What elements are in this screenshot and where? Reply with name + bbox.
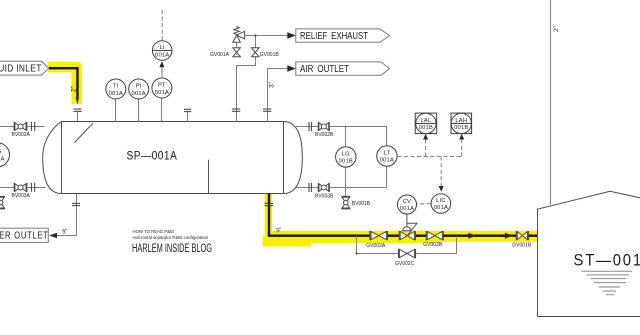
drain valve BV001B [341, 195, 350, 197]
flange pair liquid outlet [265, 202, 274, 204]
flange pair left bottom [31, 183, 33, 192]
svg-text:BV002A: BV002A [12, 132, 31, 138]
svg-text:GV001B: GV001B [512, 242, 532, 248]
tank ST-001A [538, 191, 640, 235]
signal to LAL [425, 138, 427, 157]
svg-text:001A: 001A [109, 91, 123, 97]
svg-text:BV003B: BV003B [315, 194, 334, 200]
wire: tank vent line [550, 0, 552, 205]
highlighted inlet line (yellow) [48, 67, 77, 104]
flange pair right top [308, 122, 310, 131]
svg-text:LI: LI [160, 45, 165, 51]
signal PT to LI [161, 66, 163, 78]
arrow into relief exhaust [287, 32, 296, 38]
wire: air outlet riser [268, 69, 288, 122]
flange pair right bottom [308, 183, 310, 192]
svg-text:AIR OUTLET: AIR OUTLET [300, 64, 349, 75]
svg-text:LG: LG [342, 151, 350, 157]
arrow into water outlet [49, 233, 57, 239]
spare nozzle flange [187, 112, 189, 122]
svg-text:Horizontal separator P&ID conf: Horizontal separator P&ID configuration [133, 235, 209, 240]
instrument PI 001A [138, 99, 140, 122]
instrument TI 001A [115, 99, 117, 122]
signal LIC to CV (dashed) [417, 203, 431, 205]
svg-text:BV002B: BV002B [315, 132, 334, 138]
gate valve GV002A [369, 231, 371, 240]
positioner CV 001A [398, 195, 417, 214]
svg-text:CV: CV [403, 199, 411, 205]
svg-text:HARLEM INSIDE BLOG: HARLEM INSIDE BLOG [132, 243, 212, 255]
flange pair left top [31, 122, 33, 131]
wire: left gauge top line [0, 126, 45, 128]
svg-text:001A: 001A [380, 158, 394, 164]
svg-text:RELIEF EXHAUST: RELIEF EXHAUST [300, 31, 368, 42]
wire: relief outlet [245, 35, 288, 37]
wire: thick segments between valves [388, 234, 400, 236]
control valve actuator stem [406, 214, 408, 227]
svg-text:001A: 001A [155, 90, 169, 96]
control valve diaphragm [403, 227, 411, 231]
wire: water outlet [57, 194, 77, 236]
water level symbol [582, 271, 633, 294]
svg-text:001A: 001A [0, 156, 5, 162]
svg-text:001A: 001A [434, 205, 448, 211]
svg-text:LAH: LAH [455, 118, 467, 124]
svg-text:LAL: LAL [420, 118, 431, 124]
alarm LAH 001B [451, 113, 472, 134]
gate valve GV002C [398, 249, 400, 258]
valve BV003B [317, 183, 319, 192]
box WATER OUTLET [0, 228, 48, 242]
gate valve GV001A [233, 48, 241, 53]
wire: right gauge bottom line [297, 166, 387, 188]
valve BV003A [13, 183, 15, 192]
instrument PT 001A [161, 98, 163, 122]
signal to LIC [440, 157, 442, 188]
flow arrow 2 [505, 233, 513, 239]
svg-text:3”: 3” [268, 82, 275, 88]
flange pair air nozzle [263, 108, 271, 110]
flow arrow 1 [468, 233, 476, 239]
wire: LG standpipe [345, 127, 347, 147]
svg-text:001B: 001B [339, 159, 353, 165]
wire: left gauge bottom line [0, 187, 46, 189]
relief valve PSV [236, 42, 238, 48]
gate valve GV002B [425, 231, 427, 240]
level transmitter LT 001A [377, 146, 397, 166]
signal LT to alarms (dashed) [397, 156, 461, 158]
valve BV002A [13, 122, 15, 131]
svg-text:GV001B: GV001B [260, 52, 280, 58]
level gauge LG 001A (clipped at edge) [0, 143, 10, 167]
flag FLUID INLET [0, 61, 49, 75]
svg-text:LG: LG [0, 149, 2, 155]
control valve body [398, 231, 400, 240]
svg-text:GV002A: GV002A [366, 243, 386, 249]
svg-text:BV001B: BV001B [352, 201, 371, 207]
level gauge LG 001B [336, 147, 356, 167]
svg-text:001B: 001B [454, 125, 468, 131]
wire: inlet thick line [49, 68, 78, 98]
wire: inlet stub to vessel [77, 111, 79, 121]
signal to LAH [461, 138, 463, 157]
vessel left cap seam [61, 122, 63, 194]
flag RELIEF EXHAUST [296, 29, 390, 42]
wire: bypass line [357, 236, 399, 254]
flag AIR OUTLET [296, 62, 390, 75]
wire: relief riser [236, 66, 238, 122]
svg-text:PI: PI [136, 84, 142, 90]
svg-text:SP—001A: SP—001A [127, 150, 178, 163]
weir plate [208, 160, 210, 194]
PSV spring [234, 26, 240, 34]
svg-text:LT: LT [384, 151, 391, 157]
svg-text:HOW TO READ P&ID: HOW TO READ P&ID [133, 229, 175, 234]
arrow into air outlet [287, 65, 296, 71]
instrument LI 001A [152, 41, 172, 61]
wire: main liquid outlet thick [268, 234, 370, 236]
inlet deflector baffle [75, 123, 94, 143]
svg-text:ER OUTLET: ER OUTLET [0, 229, 49, 240]
signal LI up (dashed) [161, 10, 163, 41]
gate valve GV001B top [255, 36, 257, 48]
svg-text:GV001A: GV001A [210, 52, 230, 58]
svg-text:001A: 001A [132, 91, 146, 97]
highlighted outlet line vertical (yellow) [265, 194, 272, 236]
flange pair inlet nozzle [74, 108, 82, 110]
svg-text:LIC: LIC [436, 198, 446, 204]
svg-text:001A: 001A [400, 206, 414, 212]
svg-text:ST—001A: ST—001A [574, 252, 640, 270]
svg-text:001A: 001A [155, 52, 169, 58]
wire: relief manifold [237, 57, 256, 66]
vessel right cap seam [283, 122, 285, 194]
svg-text:GV002B: GV002B [423, 242, 443, 248]
flow arrow down on inlet [76, 97, 80, 104]
highlighted main line horizontal (yellow) [265, 231, 538, 242]
valve BV002B [317, 122, 319, 131]
flange pair water outlet [72, 202, 80, 204]
wire: right gauge top line [296, 127, 387, 147]
alarm LAL 001B [415, 113, 437, 134]
control valve fail arrow [407, 223, 417, 235]
drain valve BV001A (clipped) [0, 195, 5, 197]
svg-text:2”: 2” [553, 26, 560, 32]
svg-text:TI: TI [113, 84, 119, 90]
gate valve GV001B bottom [515, 231, 517, 240]
svg-text:2”: 2” [70, 86, 77, 92]
svg-text:001B: 001B [419, 125, 433, 131]
vessel SP-001A [43, 122, 303, 194]
svg-text:GV002C: GV002C [395, 261, 415, 267]
svg-text:PT: PT [158, 83, 166, 89]
flange pair relief nozzle [232, 108, 240, 110]
svg-text:UID INLET: UID INLET [0, 63, 42, 75]
svg-text:BV003A: BV003A [12, 193, 31, 199]
controller LIC 001A [431, 194, 451, 214]
